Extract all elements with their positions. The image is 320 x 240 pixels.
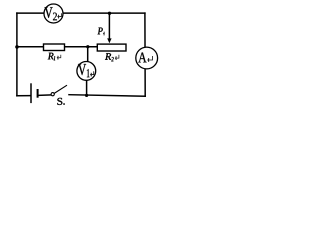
battery short plate — [37, 89, 39, 98]
switch lever — [54, 85, 67, 93]
ammeter A — [136, 47, 158, 69]
label S — [57, 98, 62, 105]
R2 subscript 2 — [111, 57, 113, 61]
battery long plate — [30, 83, 32, 103]
wire bottom-left to battery — [17, 95, 31, 97]
resistor R1 — [44, 44, 65, 51]
return mark after R2 — [115, 55, 119, 60]
wire right — [144, 13, 146, 96]
switch pivot circle — [51, 93, 54, 96]
junction node R1-R2-V1 — [86, 45, 89, 48]
V2 letter V — [45, 7, 53, 18]
rheostat R2 — [97, 44, 126, 51]
return mark after R1 — [57, 55, 61, 60]
V1 letter V — [78, 64, 86, 75]
period after S — [63, 103, 65, 105]
voltmeter V2 — [44, 4, 63, 23]
return mark after V2 — [58, 13, 62, 18]
wire V1 branch lower — [86, 79, 88, 96]
A letter — [138, 53, 146, 63]
R2 letter R — [105, 53, 111, 60]
R1 subscript 1 — [54, 56, 55, 60]
label P — [98, 28, 103, 35]
return mark after P — [103, 32, 104, 36]
V2 subscript 2 — [53, 13, 57, 21]
return mark after V1 — [91, 71, 94, 76]
slider arrow head — [107, 38, 111, 43]
wire left — [16, 13, 18, 96]
junction node top (slider tap) — [108, 12, 111, 15]
junction node V1 bottom — [85, 94, 88, 97]
junction node left — [15, 45, 19, 49]
R1 letter R — [48, 53, 54, 60]
wire middle horizontal R1-R2 — [17, 46, 97, 48]
voltmeter V1 — [77, 62, 96, 81]
V1 subscript 1 — [87, 69, 90, 77]
wire top — [17, 12, 145, 14]
wire battery to switch pivot — [38, 94, 51, 97]
wire V1 branch upper — [87, 47, 89, 63]
wire slider shaft — [108, 13, 110, 39]
return mark after A — [148, 56, 153, 62]
wire switch to bottom-right corner — [69, 95, 145, 97]
